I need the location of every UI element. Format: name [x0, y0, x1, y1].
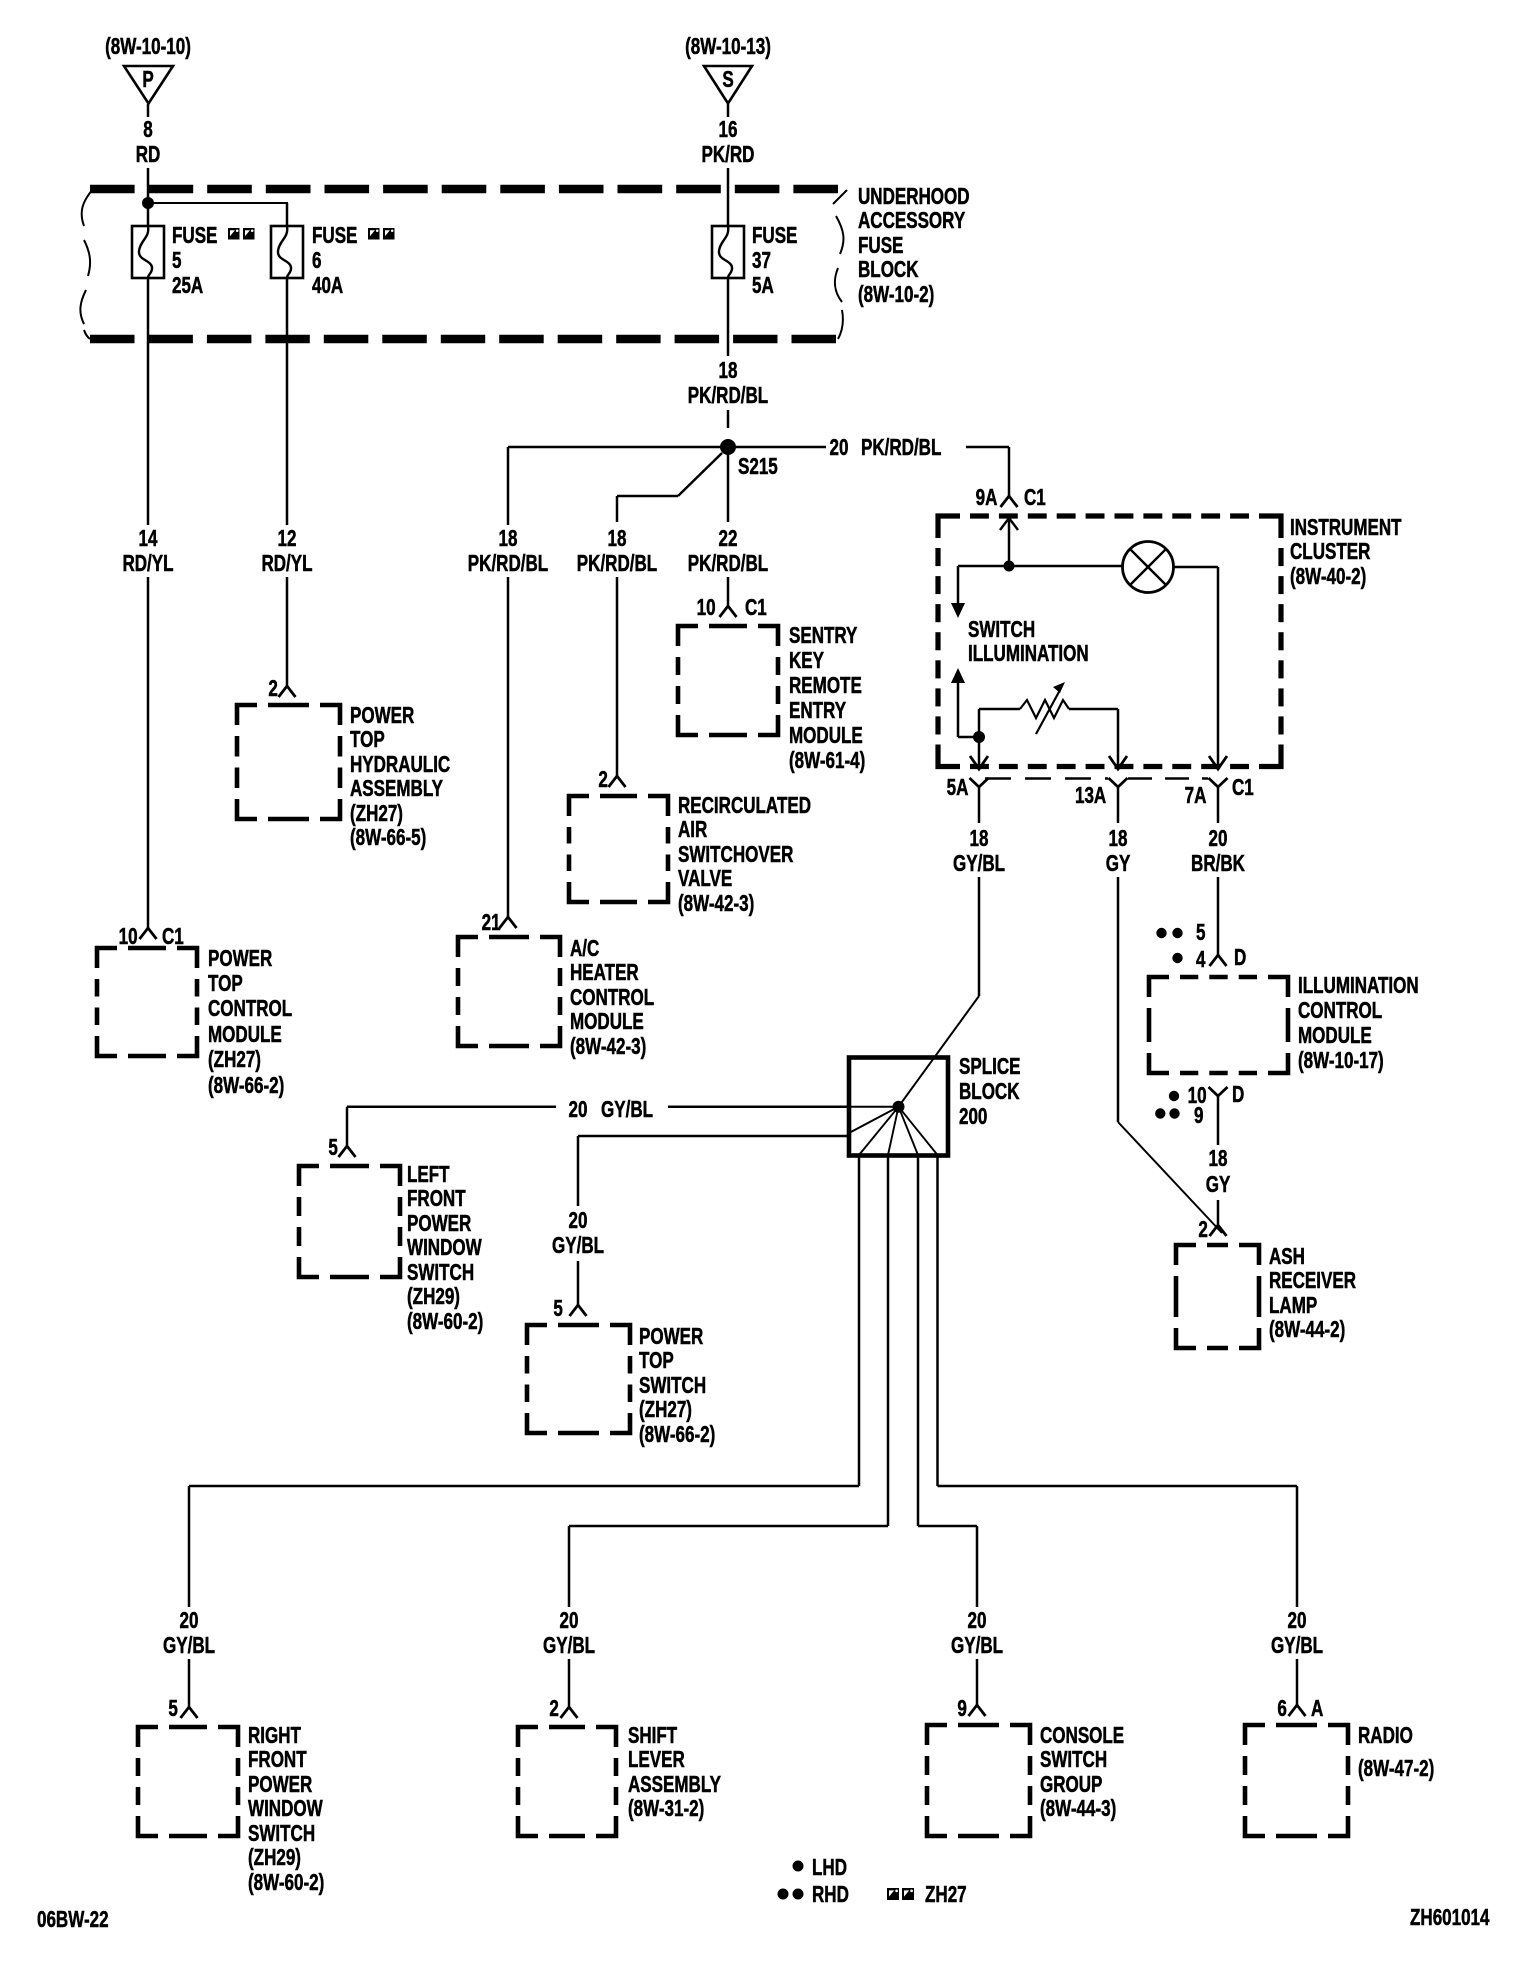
cluster entry arrow [1000, 518, 1018, 530]
label drawing number ZH601014 [1410, 1905, 1489, 1930]
radio box [1245, 1725, 1265, 1745]
ZH27 markers fuse 5 [228, 228, 240, 240]
cluster switch illumination arrow lower [951, 668, 965, 683]
label (8W-10-13) [685, 34, 771, 59]
label legend ZH27 [925, 1882, 967, 1907]
fuse 6 40A [271, 226, 303, 278]
fuse 5 25A [132, 226, 164, 278]
LHD/RHD variant dots pins 5/4 [1156, 928, 1166, 938]
label fuse 37 [752, 223, 797, 248]
cluster wire lamp to 7A [1173, 566, 1218, 569]
label S215 [738, 454, 778, 479]
splice block fan wires [849, 1106, 899, 1108]
label 2 recirc pin [599, 767, 608, 792]
label 20 GY/BL power top switch [569, 1208, 588, 1233]
wire 7A 20 BR/BK [1217, 787, 1220, 823]
label 9A C1 [975, 485, 997, 510]
label 8 RD [143, 117, 152, 142]
cluster wire 5A [978, 737, 981, 768]
label pin 6 A radio [1278, 1696, 1287, 1721]
label 20 BR/BK [1209, 826, 1228, 851]
pin 2 power top hydraulic assembly [279, 686, 296, 697]
label power top switch [639, 1324, 703, 1349]
power top switch box [527, 1325, 547, 1345]
splice S215 [720, 439, 736, 455]
power feed symbol S (8W-10-13) [704, 66, 752, 104]
label power top hydraulic assembly [350, 703, 414, 728]
splice block 200 [849, 1058, 948, 1156]
wire fuse5 to power top control module, 14 RD/YL [147, 278, 150, 525]
label right front power window switch [248, 1723, 301, 1748]
cluster junction at rheostat [973, 731, 985, 743]
label 20 GY/BL col4 [1288, 1608, 1307, 1633]
label pin 4 D [1196, 947, 1205, 972]
wire fuse37 to splice S215, 18 PK/RD/BL [727, 278, 730, 356]
legend ZH27 markers [887, 1888, 899, 1900]
wire 5A 18 GY/BL to splice block 200 [978, 787, 981, 823]
label pin 5 [1196, 920, 1205, 945]
label 14 RD/YL [139, 526, 158, 551]
label recirculated air switchover valve [678, 793, 811, 818]
wire 18 GY to ash receiver lamp [1217, 1200, 1220, 1224]
junction node on circuit P [142, 197, 154, 209]
label sentry key remote entry module [789, 623, 857, 648]
ZH27 markers fuse 6 [368, 228, 380, 240]
label pin 9 [1194, 1103, 1203, 1128]
wire S215 diagonal branch to recirculated air valve [678, 453, 722, 496]
pin 4 D illumination control module [1210, 955, 1227, 966]
label (8W-10-10) [105, 34, 191, 59]
wire 20 GY/BL to power top switch [578, 1135, 849, 1138]
power top control module box [97, 948, 117, 968]
splice wire to console switch group [917, 1155, 920, 1526]
label underhood accessory fuse block [858, 184, 970, 209]
label 21 pin [482, 910, 501, 935]
label 20 GY/BL col1 [180, 1608, 199, 1633]
cluster exit arrows [970, 756, 988, 769]
pin 9 console switch group [969, 1705, 986, 1716]
label pin 5 right front [169, 1696, 178, 1721]
A/C heater control module box [458, 937, 478, 957]
pin 10 D illumination control module [1209, 1087, 1228, 1096]
label pin 5 left front [329, 1135, 338, 1160]
pin 6 A radio [1289, 1705, 1306, 1716]
label pin 5 power top switch [554, 1296, 563, 1321]
power feed symbol P (8W-10-10) [124, 66, 173, 104]
wire S to fuse 37 [727, 104, 730, 117]
LHD/RHD variant dots pins 10/9 [1169, 1091, 1179, 1101]
variable resistor (panel dimmer rheostat) [978, 709, 981, 737]
cluster internal junction [1004, 561, 1015, 572]
wire fuse6 to power top hydraulic assembly, 12 RD/YL [286, 278, 289, 525]
label shift lever assembly [628, 1723, 677, 1748]
wire 13A 18 GY [1117, 787, 1120, 823]
wire 20 GY/BL to left front power window switch [668, 1105, 849, 1108]
wire S215 right branch, 20 PK/RD/BL to instrument cluster [736, 446, 826, 449]
label A/C heater control module [570, 936, 599, 961]
label console switch group [1040, 1723, 1124, 1748]
wire to fuse 6 [148, 202, 288, 204]
splice wire to shift lever assembly [887, 1155, 890, 1526]
fuse 37 5A [712, 226, 744, 278]
label left front power window switch [407, 1162, 450, 1187]
pin 5 left front power window switch [339, 1146, 356, 1157]
label 10 C1 power top control [119, 924, 138, 949]
label power top control module [208, 946, 272, 971]
shift lever assembly box [518, 1727, 538, 1747]
label pin 10 D [1188, 1083, 1207, 1108]
label sheet number 06BW-22 [37, 1907, 109, 1932]
wire S215 down branch, 22 PK/RD/BL [727, 455, 730, 522]
label legend RHD [812, 1882, 849, 1907]
pin 5 right front power window switch [181, 1707, 198, 1718]
power top hydraulic assembly box [237, 705, 257, 725]
label 18 GY [1109, 826, 1128, 851]
label 20 GY/BL col3 [968, 1608, 987, 1633]
label radio [1358, 1723, 1413, 1748]
recirculated air switchover valve box [569, 796, 589, 816]
splice wire to radio [936, 1155, 939, 1486]
ash receiver lamp box [1176, 1245, 1196, 1265]
label S [722, 67, 733, 92]
cluster bottom connector C1 pins [970, 778, 989, 787]
label pin 2 shift lever [550, 1696, 559, 1721]
label 20 PK/RD/BL [830, 435, 849, 460]
label pin 2 ash [1199, 1217, 1208, 1242]
pin 21 A/C heater control module [500, 917, 517, 928]
label 2 hydraulic pin [269, 676, 278, 701]
label 10 C1 sentry [697, 595, 716, 620]
illumination lamp [1123, 542, 1174, 593]
pin 9A C1 instrument cluster [1001, 496, 1018, 507]
pin 5 power top switch [570, 1305, 587, 1316]
label 7A [1184, 783, 1206, 808]
pin 2 recirculated air switchover valve [609, 776, 626, 787]
pin 10 C1 sentry key module [720, 606, 737, 617]
label instrument cluster [1290, 515, 1402, 540]
pin 10 C1 power top control module [140, 928, 157, 939]
label legend LHD [812, 1855, 847, 1880]
label C1 cluster bottom [1232, 775, 1254, 800]
legend LHD dot [793, 1861, 804, 1872]
right front power window switch box [138, 1727, 158, 1747]
label 18 PK/RD/BL col1 [499, 526, 518, 551]
cluster wire to lamp [1009, 565, 1123, 568]
legend RHD dots [778, 1889, 789, 1900]
sentry key remote entry module box [678, 626, 698, 646]
illumination control module box [1149, 977, 1169, 997]
console switch group box [927, 1725, 947, 1745]
label 13A [1075, 783, 1106, 808]
label 22 PK/RD/BL [719, 526, 738, 551]
label switch illumination [968, 617, 1035, 642]
instrument cluster box [938, 516, 960, 538]
pin 2 shift lever assembly [561, 1707, 578, 1718]
label 12 RD/YL [278, 526, 297, 551]
label 5A [946, 775, 968, 800]
underhood accessory fuse block outline [90, 185, 135, 194]
label fuse 6 [312, 223, 357, 248]
label ash receiver lamp [1269, 1244, 1305, 1269]
wire P to fuse block [147, 104, 150, 117]
cluster switch illumination arrow upper [958, 565, 1009, 568]
label illumination control module [1298, 973, 1419, 998]
label fuse 5 [172, 223, 217, 248]
wire S215 left branch [508, 446, 721, 449]
label 20 GY/BL col2 [560, 1608, 579, 1633]
label splice block 200 [959, 1054, 1020, 1079]
cluster wire rheostat to 13A [1117, 709, 1120, 768]
label 18 PK/RD/BL col2 [608, 526, 627, 551]
label 18 GY/BL [970, 826, 989, 851]
pin 2 ash receiver lamp [1210, 1225, 1227, 1236]
left front power window switch box [299, 1166, 319, 1186]
label 20 GY/BL horizontal [569, 1097, 588, 1122]
label pin 9 console [958, 1696, 967, 1721]
splice wire to right front power window switch [858, 1155, 861, 1486]
label P [142, 67, 153, 92]
label 18 GY ash [1209, 1146, 1228, 1171]
label 18 PK/RD/BL [719, 358, 738, 383]
label 16 PK/RD [719, 117, 738, 142]
